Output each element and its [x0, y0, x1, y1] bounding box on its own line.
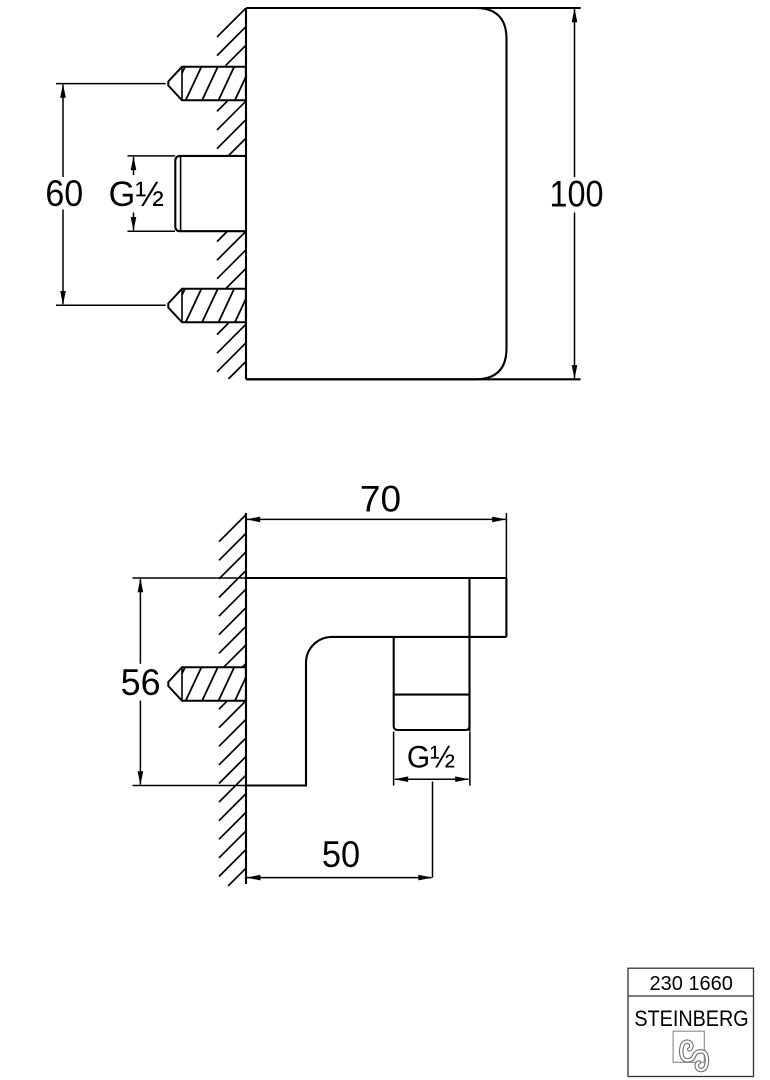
- upper wall anchor screw (front view): [168, 67, 246, 101]
- wall anchor screw (side view): [168, 667, 246, 701]
- svg-text:60: 60: [45, 173, 83, 215]
- bracket outline (side view): [246, 578, 506, 786]
- title block frame: [628, 968, 754, 1076]
- title block divider: [628, 995, 754, 997]
- wall-plate body (front view): [246, 8, 507, 379]
- lower wall anchor screw (front view): [168, 289, 246, 323]
- svg-text:56: 56: [121, 662, 161, 704]
- G1/2 inlet pipe stub (front view): [175, 156, 246, 231]
- wall face line (side view): [245, 513, 247, 884]
- dimension 56: extension lines and dim line: [133, 578, 247, 786]
- centerline of outlet down to 50 dim: [432, 782, 434, 878]
- dimension 100: line: [574, 9, 576, 378]
- svg-text:70: 70: [360, 478, 401, 519]
- wall hatching (front view): [217, 9, 246, 379]
- dimension G1/2 (front): extension lines and arrows: [128, 156, 176, 231]
- svg-text:100: 100: [550, 174, 604, 214]
- svg-text:G½: G½: [109, 176, 164, 214]
- svg-text:STEINBERG: STEINBERG: [634, 1007, 748, 1031]
- wall face line (front view): [245, 8, 247, 379]
- bottom edge / extension line: [246, 378, 581, 380]
- top edge / extension line: [246, 7, 581, 9]
- svg-text:50: 50: [322, 834, 360, 875]
- Steinberg logo swirl: [680, 1040, 709, 1072]
- dimension 70: dim line and right extension: [247, 513, 506, 578]
- dimension 60: extension lines and dim line: [56, 84, 166, 306]
- wall hatching (side view): [219, 515, 246, 886]
- svg-text:G½: G½: [407, 739, 455, 775]
- svg-text:230 1660: 230 1660: [649, 973, 732, 995]
- dimension G1/2 (side): extension lines, dim line with arrows: [394, 732, 470, 786]
- Steinberg logo square: [673, 1031, 704, 1062]
- dimension 50: dim line: [247, 877, 432, 879]
